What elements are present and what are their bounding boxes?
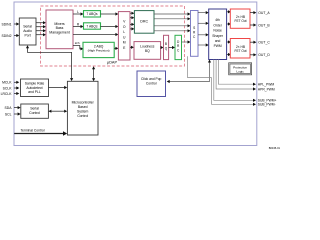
- svg-text:Control: Control: [146, 81, 157, 85]
- svg-text:FET Out: FET Out: [235, 49, 247, 53]
- svg-text:4th: 4th: [215, 18, 220, 22]
- svg-text:(High Precision): (High Precision): [88, 49, 110, 53]
- protection logic block: [229, 63, 252, 75]
- svg-text:SDIN2: SDIN2: [2, 34, 12, 38]
- svg-text:BQ: BQ: [145, 49, 150, 53]
- svg-text:System: System: [77, 110, 88, 114]
- wire SRC bottom stair: [188, 56, 212, 77]
- wire mixer direct to volume: [73, 34, 116, 36]
- biquad 2 ABQ high precision: [83, 42, 114, 57]
- svg-text:O: O: [123, 25, 126, 29]
- wire 2ch: [73, 46, 81, 49]
- svg-text:and PLL: and PLL: [28, 90, 41, 94]
- wires SAP to mixer (4): [36, 23, 43, 35]
- svg-text:SCL: SCL: [5, 112, 12, 116]
- serial control block: [21, 104, 49, 118]
- svg-text:MCLK: MCLK: [2, 81, 12, 85]
- wire L: [73, 13, 81, 15]
- wire loudness to BQ: [160, 47, 162, 49]
- chip outer boundary: [14, 2, 257, 146]
- svg-text:Microcontroller: Microcontroller: [72, 100, 95, 104]
- wire OUT_B: [250, 24, 254, 26]
- svg-text:Order: Order: [213, 23, 222, 27]
- click and pop control block: [137, 71, 166, 97]
- wire SUB_PWM- route: [212, 78, 254, 105]
- wire SAP link to micro: [28, 48, 72, 78]
- volume block: [118, 12, 130, 60]
- svg-text:M: M: [123, 41, 126, 45]
- mixer bass management block: [46, 10, 73, 49]
- wire OUT_D: [250, 54, 254, 56]
- svg-text:OUT_D: OUT_D: [258, 53, 270, 57]
- wire HPR_PWM route: [216, 60, 253, 90]
- wire OUT_C: [250, 41, 254, 43]
- FET output CD block: [230, 39, 250, 59]
- wire DRC2 to SRC: [182, 41, 188, 43]
- svg-text:7 ABQs: 7 ABQs: [86, 24, 98, 28]
- svg-text:Control: Control: [77, 114, 88, 118]
- wire SUB_PWM+ route: [214, 60, 253, 101]
- microcontroller system control block: [67, 81, 98, 135]
- wire volume to loudness: [130, 46, 131, 48]
- wire SDIN1: [14, 23, 17, 25]
- svg-text:DRC: DRC: [140, 19, 148, 23]
- svg-text:L: L: [123, 30, 125, 34]
- wire 2ABQ out to volume: [114, 47, 115, 49]
- biquad bank 7ABQs R: [84, 23, 101, 29]
- wires SRC to noise shaper (4): [198, 13, 206, 45]
- wire click-pop link to NS: [170, 63, 210, 82]
- svg-text:SDA: SDA: [5, 106, 13, 110]
- wire 7ABQs R out to volume: [101, 26, 116, 28]
- svg-text:LRCLK: LRCLK: [1, 92, 13, 96]
- svg-text:FET Out: FET Out: [235, 19, 247, 23]
- svg-text:2ch: 2ch: [75, 41, 80, 45]
- svg-text:B: B: [165, 42, 167, 46]
- wire SDIN2: [14, 35, 17, 37]
- svg-text:HPL_PWM: HPL_PWM: [258, 83, 275, 87]
- wires volume to DRC (4): [130, 13, 131, 29]
- svg-text:OUT_B: OUT_B: [258, 23, 270, 27]
- svg-text:SCLK: SCLK: [3, 86, 13, 90]
- loudness BQ block: [134, 42, 161, 60]
- svg-text:SDIN1: SDIN1: [2, 22, 12, 26]
- wire R: [73, 26, 81, 28]
- svg-text:PWM: PWM: [214, 44, 222, 48]
- svg-text:OUT_A: OUT_A: [258, 11, 270, 15]
- svg-text:HPR_PWM: HPR_PWM: [258, 87, 275, 91]
- svg-text:µDAP: µDAP: [107, 61, 117, 65]
- svg-text:Port: Port: [24, 34, 30, 38]
- svg-text:Audio: Audio: [23, 29, 32, 33]
- wire samplerate to micro: [49, 87, 65, 89]
- wire 7ABQs L out to volume: [101, 13, 116, 15]
- svg-text:SUB_PWM+: SUB_PWM+: [258, 99, 277, 103]
- uDAP dashed region: [41, 6, 185, 66]
- serial audio port U-SAP: [19, 18, 36, 45]
- svg-text:B0345-01: B0345-01: [269, 146, 280, 150]
- svg-text:Serial: Serial: [23, 25, 32, 29]
- svg-text:Shaper: Shaper: [212, 34, 224, 38]
- svg-text:SUB_PWM-: SUB_PWM-: [258, 103, 276, 107]
- svg-text:Control: Control: [29, 111, 40, 115]
- svg-text:Based: Based: [78, 105, 88, 109]
- svg-text:OUT_C: OUT_C: [258, 41, 270, 45]
- noise shaper PWM block: [209, 9, 227, 60]
- svg-text:L: L: [77, 10, 79, 14]
- wire terminal control: [14, 133, 63, 135]
- wire uDAP micro bidirectional: [93, 69, 95, 79]
- svg-text:R: R: [77, 22, 80, 26]
- wire serial control to micro (bidir): [51, 110, 64, 112]
- DRC vertical block: [175, 35, 182, 59]
- svg-text:Management: Management: [49, 30, 69, 34]
- svg-text:S: S: [193, 26, 195, 30]
- wire HPL_PWM route: [218, 60, 253, 85]
- svg-text:Noise: Noise: [213, 29, 222, 33]
- wire OUT_A: [250, 12, 254, 14]
- sample rate autodetect and PLL block: [21, 79, 49, 97]
- svg-text:Terminal Control: Terminal Control: [20, 129, 44, 133]
- wires NS to FET AB: [227, 12, 228, 55]
- svg-text:and: and: [215, 39, 221, 43]
- DRC main block: [134, 11, 154, 34]
- svg-text:7 ABQs: 7 ABQs: [86, 12, 98, 16]
- wires DRC to SRC (4): [154, 14, 188, 31]
- biquad bank 7ABQs L: [84, 11, 101, 17]
- wire BQ to DRC2: [169, 47, 172, 49]
- FET output AB block: [230, 9, 250, 28]
- SRC block: [191, 11, 199, 57]
- BQ vertical block: [164, 35, 169, 59]
- svg-text:Logic: Logic: [236, 69, 244, 73]
